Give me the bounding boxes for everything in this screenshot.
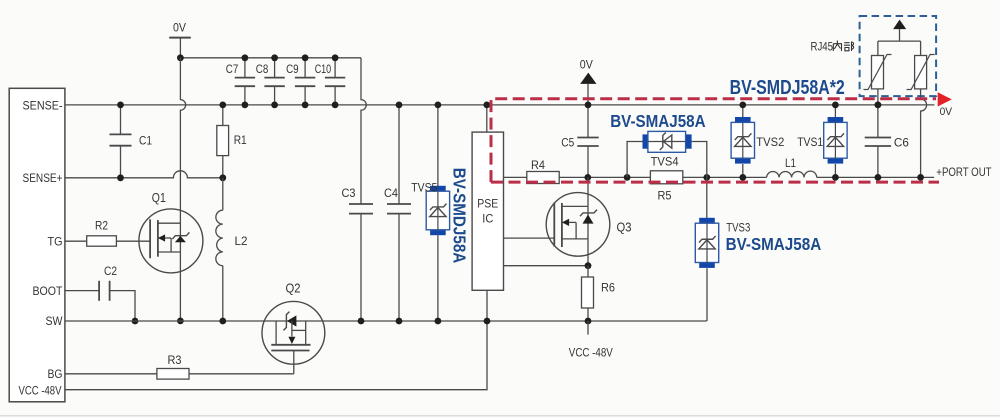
resistor R6	[587, 266, 589, 277]
connector J1 (controller box)	[9, 88, 65, 402]
svg-text:R2: R2	[95, 218, 108, 232]
svg-text:C10: C10	[315, 62, 332, 76]
capacitor C7	[244, 58, 246, 78]
svg-text:C4: C4	[384, 186, 398, 200]
transistor Q1 (high-side MOSFET)	[139, 209, 203, 273]
capacitor C8	[274, 58, 276, 78]
svg-text:TVS1: TVS1	[797, 135, 823, 149]
svg-text:C8: C8	[256, 62, 269, 76]
TVS3 diode BV-SMAJ58A	[706, 177, 708, 223]
capacitor C10	[334, 58, 336, 78]
wire RJ45 branch bar	[878, 40, 921, 42]
svg-text:C3: C3	[342, 186, 356, 200]
svg-text:TVS4: TVS4	[651, 154, 679, 168]
svg-text:C6: C6	[894, 136, 909, 150]
svg-text:BG: BG	[48, 367, 63, 381]
svg-text:+PORT OUT: +PORT OUT	[936, 165, 992, 179]
wire BG	[65, 373, 157, 375]
resistor R4	[527, 172, 559, 184]
svg-text:VCC -48V: VCC -48V	[19, 383, 62, 397]
svg-text:VCC -48V: VCC -48V	[569, 345, 613, 359]
svg-text:R6: R6	[601, 281, 615, 295]
svg-text:Q2: Q2	[286, 280, 301, 295]
RJ45 internal box	[860, 16, 937, 96]
svg-text:RJ45: RJ45	[811, 39, 834, 53]
capacitor C9	[304, 58, 306, 78]
svg-text:C2: C2	[104, 264, 117, 278]
surge arrow 0V	[938, 92, 952, 106]
varistor RV2 (right, hop over 0V rail)	[920, 41, 922, 55]
svg-text:BV-SMDJ58A: BV-SMDJ58A	[450, 168, 470, 264]
wire 0V top rail	[180, 57, 361, 59]
svg-text:R1: R1	[234, 133, 247, 147]
TVS1 diode	[834, 105, 836, 123]
svg-text:R5: R5	[658, 188, 672, 202]
svg-text:SENSE-: SENSE-	[23, 98, 63, 112]
svg-text:R4: R4	[531, 158, 545, 172]
svg-text:0V: 0V	[173, 21, 186, 35]
wire PSE to Q3 gate	[504, 237, 555, 239]
wire TG to Q1 gate	[65, 240, 87, 242]
svg-text:TVS5: TVS5	[411, 180, 437, 194]
svg-text:SW: SW	[46, 314, 64, 328]
wire VCC-48V from box to PSE	[65, 290, 487, 389]
node 0V-Q1	[177, 54, 184, 61]
wire SW rail	[65, 320, 707, 322]
PSE IC U1	[472, 132, 503, 290]
wire +PORT rail (R4 line)	[504, 176, 527, 178]
svg-text:L1: L1	[785, 156, 796, 170]
resistor R5 inline	[650, 171, 682, 184]
TVS5 diode BV-SMDJ58A	[437, 105, 439, 191]
svg-text:BV-SMAJ58A: BV-SMAJ58A	[610, 111, 706, 131]
transistor Q2 (low-side MOSFET on SW rail)	[262, 301, 325, 364]
svg-text:TVS3: TVS3	[726, 220, 750, 234]
capacitor C6	[877, 105, 879, 138]
resistor R3	[157, 369, 189, 380]
wire PSE to Q3 source	[504, 265, 589, 267]
capacitor C5	[587, 105, 589, 138]
capacitor C1	[120, 105, 122, 134]
capacitor C4	[398, 105, 400, 204]
svg-text:TG: TG	[48, 235, 63, 249]
svg-text:0V: 0V	[940, 106, 953, 118]
svg-text:C7: C7	[226, 62, 239, 76]
svg-text:SENSE+: SENSE+	[23, 171, 63, 185]
varistor RV1 (left)	[877, 41, 879, 55]
capacitor C2 on BOOT	[65, 290, 99, 292]
wire SENSE- rail	[65, 104, 935, 106]
TVS2 diode	[742, 105, 744, 123]
surge path (red dashed)	[491, 99, 939, 182]
svg-text:C5: C5	[561, 135, 574, 149]
svg-text:TVS2: TVS2	[756, 135, 784, 149]
resistor R2	[87, 236, 117, 246]
svg-text:BV-SMDJ58A*2: BV-SMDJ58A*2	[730, 77, 845, 99]
inductor L1	[767, 171, 817, 177]
svg-text:PSE: PSE	[477, 197, 498, 211]
svg-text:0V: 0V	[580, 58, 593, 72]
svg-text:C1: C1	[139, 133, 152, 147]
inductor L2	[222, 178, 224, 210]
TVS4 diode BV-SMAJ58A parallel R5	[627, 142, 642, 178]
svg-text:Q1: Q1	[152, 190, 166, 205]
svg-text:Q3: Q3	[617, 220, 632, 235]
svg-text:BV-SMAJ58A: BV-SMAJ58A	[726, 234, 822, 254]
svg-text:C9: C9	[286, 62, 299, 76]
svg-text:BOOT: BOOT	[33, 284, 64, 298]
svg-text:R3: R3	[168, 353, 182, 367]
svg-text:IC: IC	[482, 212, 493, 226]
resistor R1	[222, 105, 224, 126]
capacitor C3 (hop over SENSE- rail)	[361, 58, 366, 204]
VCC-48V stub label	[587, 321, 589, 335]
svg-text:L2: L2	[235, 234, 248, 248]
ground arrow symbol in RJ45 box	[893, 20, 906, 30]
bottom divider	[0, 415, 1000, 417]
wire SENSE- to PSE top pin	[486, 105, 488, 132]
transistor Q3 (port MOSFET)	[546, 193, 610, 257]
wire SENSE+ (hop over Q1 drain line)	[65, 171, 223, 178]
